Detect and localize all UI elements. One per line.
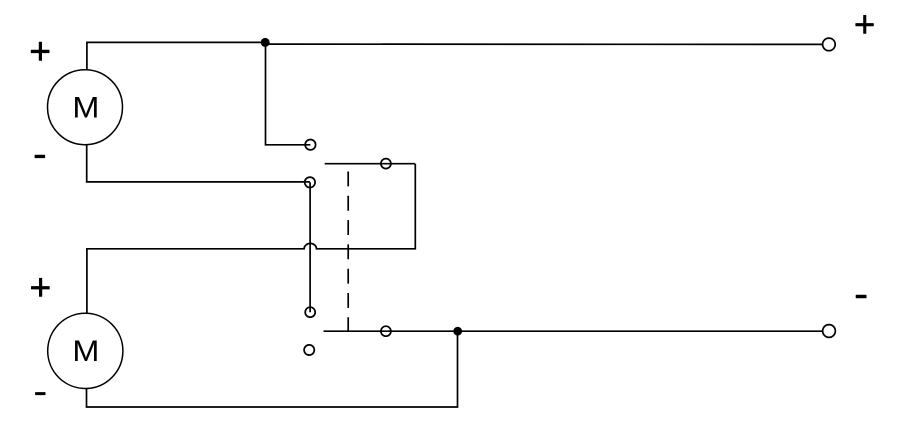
- label + (motor M2 positive): [31, 278, 50, 297]
- wire node A to positive supply terminal: [266, 43, 823, 45]
- switch S2 contact 3: [305, 307, 315, 317]
- switch S1 lever arm: [325, 163, 416, 165]
- switch S2 lever arm and wire to negative terminal: [324, 330, 823, 332]
- switch S2 pivot: [381, 326, 391, 336]
- wire node B down to motor M2 minus: [87, 331, 458, 407]
- svg-text:M: M: [72, 334, 99, 367]
- switch S1 pivot: [381, 159, 391, 169]
- label - (battery negative, right): [856, 295, 867, 298]
- label - (motor M1 negative): [35, 155, 46, 158]
- node B junction dot: [453, 327, 462, 336]
- motor M2: [48, 313, 123, 388]
- label + (battery positive, right): [855, 15, 873, 34]
- wire motor M1 plus to node A: [87, 42, 266, 70]
- motor M1: [48, 70, 123, 145]
- wire node A down to switch contact 1: [266, 43, 311, 145]
- label - (motor M2 negative): [35, 392, 45, 395]
- switch S1 contact 2: [305, 177, 315, 187]
- mechanical link (dashed) between switch poles: [347, 172, 349, 332]
- terminal T2 (supply -): [823, 325, 836, 338]
- wire switch S1 common to motor M2 plus (with hop): [87, 164, 415, 313]
- switch S1 contact 1: [305, 140, 315, 150]
- switch S2 contact 4 (unconnected): [304, 345, 314, 355]
- terminal T1 (supply +): [823, 38, 836, 51]
- label + (motor M1 positive): [31, 42, 50, 61]
- wire switch contact 2 down to switch contact 3: [309, 182, 311, 312]
- node A junction dot: [261, 38, 270, 47]
- wire motor M1 minus to switch contact 2: [87, 145, 310, 182]
- svg-text:M: M: [72, 91, 99, 124]
